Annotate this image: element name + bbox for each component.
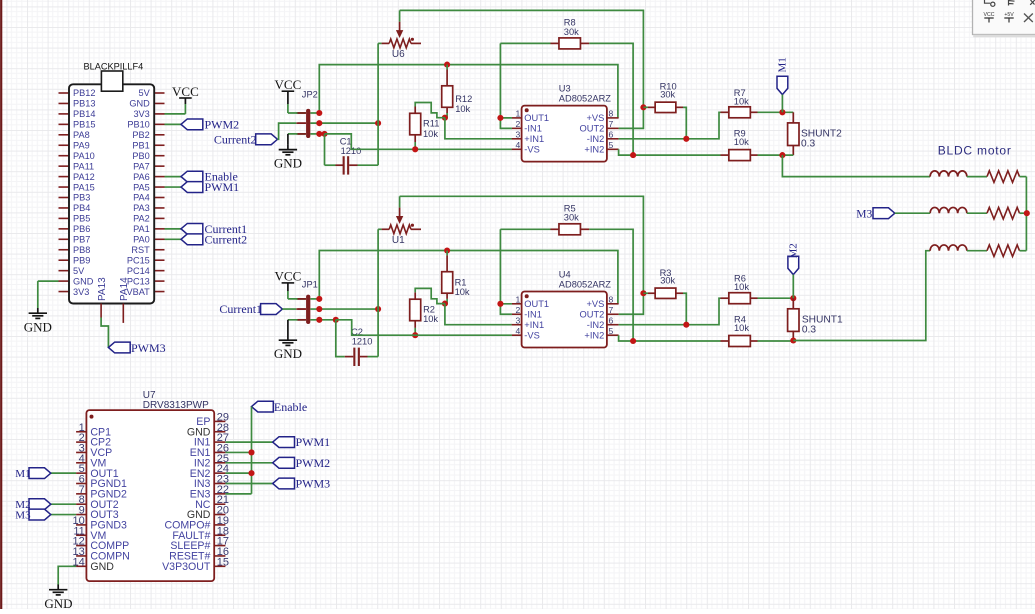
svg-text:20: 20 bbox=[217, 505, 229, 517]
svg-text:16: 16 bbox=[217, 546, 229, 558]
svg-text:+5V: +5V bbox=[1004, 12, 1014, 18]
svg-text:PB3: PB3 bbox=[73, 193, 90, 203]
svg-text:BLACKPILLF4: BLACKPILLF4 bbox=[84, 62, 144, 72]
svg-text:10k: 10k bbox=[455, 287, 470, 297]
svg-text:5V: 5V bbox=[139, 88, 151, 98]
svg-text:15: 15 bbox=[217, 556, 229, 568]
svg-text:-IN2: -IN2 bbox=[587, 320, 605, 330]
svg-text:OUT1: OUT1 bbox=[524, 113, 549, 123]
svg-text:PA7: PA7 bbox=[133, 161, 150, 171]
svg-text:PB6: PB6 bbox=[73, 224, 90, 234]
svg-text:VCC: VCC bbox=[275, 269, 302, 284]
svg-text:19: 19 bbox=[217, 515, 229, 527]
svg-text:OUT2: OUT2 bbox=[580, 124, 605, 134]
svg-text:PB5: PB5 bbox=[73, 214, 90, 224]
svg-text:5: 5 bbox=[609, 326, 614, 336]
svg-text:18: 18 bbox=[217, 525, 229, 537]
svg-text:Enable: Enable bbox=[274, 400, 307, 414]
svg-text:PA3: PA3 bbox=[133, 203, 150, 213]
svg-text:OUT1: OUT1 bbox=[524, 299, 549, 309]
svg-text:2: 2 bbox=[516, 305, 521, 315]
svg-text:PWM1: PWM1 bbox=[205, 180, 240, 194]
svg-text:3V3: 3V3 bbox=[133, 109, 149, 119]
svg-text:PA9: PA9 bbox=[73, 140, 90, 150]
svg-text:PB4: PB4 bbox=[73, 203, 90, 213]
svg-text:29: 29 bbox=[217, 411, 229, 423]
svg-text:PA2: PA2 bbox=[133, 214, 150, 224]
svg-text:R12: R12 bbox=[455, 94, 472, 104]
svg-text:PA12: PA12 bbox=[73, 172, 95, 182]
svg-text:+VS: +VS bbox=[586, 299, 604, 309]
svg-text:+VS: +VS bbox=[586, 113, 604, 123]
svg-text:U6: U6 bbox=[392, 49, 405, 60]
svg-text:-VS: -VS bbox=[524, 145, 540, 155]
svg-text:10k: 10k bbox=[423, 129, 438, 139]
svg-text:30k: 30k bbox=[564, 213, 579, 223]
svg-text:VCC: VCC bbox=[984, 12, 995, 18]
svg-text:PB0: PB0 bbox=[132, 151, 149, 161]
svg-text:30k: 30k bbox=[660, 276, 675, 286]
svg-text:PB13: PB13 bbox=[73, 99, 95, 109]
svg-text:PA8: PA8 bbox=[73, 130, 90, 140]
svg-text:GND: GND bbox=[90, 561, 114, 573]
svg-text:5V: 5V bbox=[73, 266, 85, 276]
svg-text:M3: M3 bbox=[15, 510, 31, 522]
svg-text:PA6: PA6 bbox=[133, 172, 150, 182]
svg-text:PWM2: PWM2 bbox=[205, 117, 240, 131]
svg-text:3: 3 bbox=[516, 316, 521, 326]
svg-text:7: 7 bbox=[609, 119, 614, 129]
svg-text:10k: 10k bbox=[734, 137, 749, 147]
svg-text:0.3: 0.3 bbox=[802, 324, 816, 335]
svg-text:10k: 10k bbox=[734, 323, 749, 333]
svg-text:PB15: PB15 bbox=[73, 120, 95, 130]
svg-text:PC13: PC13 bbox=[127, 276, 150, 286]
svg-text:10k: 10k bbox=[455, 104, 470, 114]
svg-text:8: 8 bbox=[609, 295, 614, 305]
svg-text:3: 3 bbox=[516, 130, 521, 140]
svg-text:PA14: PA14 bbox=[119, 277, 130, 301]
svg-text:8: 8 bbox=[609, 109, 614, 119]
svg-text:4: 4 bbox=[516, 140, 521, 150]
svg-text:17: 17 bbox=[217, 536, 229, 548]
svg-text:AD8052ARZ: AD8052ARZ bbox=[559, 279, 612, 289]
svg-text:6: 6 bbox=[609, 130, 614, 140]
svg-text:28: 28 bbox=[217, 422, 229, 434]
svg-text:PWM3: PWM3 bbox=[131, 341, 166, 355]
svg-text:R2: R2 bbox=[423, 304, 435, 314]
svg-text:GND: GND bbox=[44, 596, 72, 609]
svg-text:4: 4 bbox=[516, 326, 521, 336]
svg-text:PB7: PB7 bbox=[73, 235, 90, 245]
svg-text:1: 1 bbox=[516, 109, 521, 119]
svg-text:PA15: PA15 bbox=[73, 182, 95, 192]
svg-text:Current2: Current2 bbox=[205, 232, 248, 246]
svg-text:PB8: PB8 bbox=[73, 245, 90, 255]
svg-text:+IN1: +IN1 bbox=[524, 320, 544, 330]
svg-text:PA0: PA0 bbox=[133, 235, 150, 245]
svg-text:PWM2: PWM2 bbox=[296, 456, 331, 470]
svg-text:6: 6 bbox=[609, 316, 614, 326]
svg-text:M1: M1 bbox=[15, 468, 30, 480]
svg-text:7: 7 bbox=[609, 305, 614, 315]
svg-text:U1: U1 bbox=[392, 235, 405, 246]
svg-text:M1: M1 bbox=[777, 57, 789, 72]
svg-text:VCC: VCC bbox=[172, 84, 199, 99]
svg-text:1: 1 bbox=[516, 295, 521, 305]
svg-text:Current1: Current1 bbox=[219, 302, 262, 316]
svg-text:PA1: PA1 bbox=[133, 224, 150, 234]
svg-text:VCC: VCC bbox=[275, 77, 302, 92]
svg-text:2: 2 bbox=[516, 119, 521, 129]
svg-text:OUT2: OUT2 bbox=[580, 310, 605, 320]
svg-text:-VS: -VS bbox=[524, 331, 540, 341]
svg-text:PA5: PA5 bbox=[133, 182, 150, 192]
svg-text:RST: RST bbox=[131, 245, 150, 255]
svg-text:M3: M3 bbox=[856, 208, 872, 220]
svg-text:BLDC motor: BLDC motor bbox=[938, 144, 1012, 158]
svg-text:-IN1: -IN1 bbox=[524, 310, 542, 320]
svg-text:21: 21 bbox=[217, 494, 229, 506]
svg-text:PB2: PB2 bbox=[132, 130, 149, 140]
svg-text:PB10: PB10 bbox=[127, 120, 149, 130]
svg-text:1210: 1210 bbox=[352, 336, 373, 346]
svg-text:PA13: PA13 bbox=[97, 277, 108, 301]
svg-text:10k: 10k bbox=[734, 282, 749, 292]
svg-text:30k: 30k bbox=[564, 27, 579, 37]
svg-text:+IN2: +IN2 bbox=[584, 331, 604, 341]
svg-text:GND: GND bbox=[24, 320, 52, 335]
svg-text:10k: 10k bbox=[734, 96, 749, 106]
svg-text:GND: GND bbox=[129, 99, 150, 109]
svg-text:GND: GND bbox=[274, 155, 302, 170]
svg-text:PB1: PB1 bbox=[132, 140, 149, 150]
svg-text:DRV8313PWP: DRV8313PWP bbox=[143, 400, 209, 411]
svg-text:M2: M2 bbox=[788, 243, 800, 258]
svg-text:U4: U4 bbox=[559, 269, 571, 279]
svg-text:JP1: JP1 bbox=[302, 279, 318, 289]
svg-text:Current2: Current2 bbox=[214, 133, 257, 147]
svg-text:PB14: PB14 bbox=[73, 109, 95, 119]
svg-text:-IN2: -IN2 bbox=[587, 134, 605, 144]
svg-text:PA10: PA10 bbox=[73, 151, 95, 161]
svg-text:PWM1: PWM1 bbox=[296, 435, 331, 449]
svg-text:PB12: PB12 bbox=[73, 88, 95, 98]
svg-text:30k: 30k bbox=[660, 90, 675, 100]
svg-text:PA11: PA11 bbox=[73, 161, 94, 171]
svg-text:GND: GND bbox=[274, 346, 302, 361]
svg-text:+IN1: +IN1 bbox=[524, 134, 544, 144]
svg-text:PC15: PC15 bbox=[127, 255, 150, 265]
svg-text:5: 5 bbox=[609, 140, 614, 150]
svg-text:PB9: PB9 bbox=[73, 255, 90, 265]
svg-text:PA4: PA4 bbox=[133, 193, 150, 203]
svg-text:JP2: JP2 bbox=[302, 90, 318, 100]
svg-text:V3P3OUT: V3P3OUT bbox=[162, 561, 211, 573]
svg-text:AD8052ARZ: AD8052ARZ bbox=[559, 93, 612, 103]
svg-text:-IN1: -IN1 bbox=[524, 124, 542, 134]
svg-text:3V3: 3V3 bbox=[73, 287, 89, 297]
svg-text:PC14: PC14 bbox=[127, 266, 150, 276]
svg-text:0.3: 0.3 bbox=[801, 139, 815, 150]
svg-text:10k: 10k bbox=[423, 314, 438, 324]
svg-text:GND: GND bbox=[73, 276, 94, 286]
svg-text:R1: R1 bbox=[455, 278, 467, 288]
svg-text:R11: R11 bbox=[423, 119, 439, 129]
svg-text:U3: U3 bbox=[559, 84, 571, 94]
svg-text:+IN2: +IN2 bbox=[584, 145, 604, 155]
svg-text:PWM3: PWM3 bbox=[296, 477, 331, 491]
svg-text:C1: C1 bbox=[340, 136, 352, 146]
